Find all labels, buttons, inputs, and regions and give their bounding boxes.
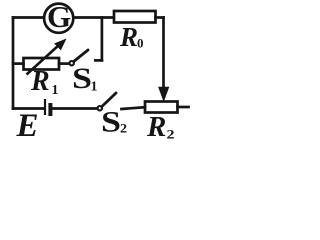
R2 wiper arrow (159, 87, 169, 100)
svg-text:2: 2 (167, 127, 175, 142)
wire top-left to galvanometer (13, 16, 44, 19)
wire R0 to right corner (156, 16, 164, 19)
wire S2 to R2 (122, 107, 146, 109)
svg-text:E: E (16, 108, 39, 143)
wire junction vertical to S1 (101, 18, 104, 61)
svg-text:G: G (47, 0, 71, 34)
R1 arrow (27, 40, 66, 75)
resistor R0 (114, 11, 156, 23)
variable resistor R1 (24, 58, 60, 70)
wire R1 to S1 (59, 62, 69, 65)
wire R1 left (13, 62, 24, 65)
svg-text:S: S (72, 62, 92, 95)
galvanometer G (44, 4, 73, 33)
rheostat R2 (145, 102, 178, 113)
wire left border (12, 18, 15, 109)
svg-text:R: R (30, 66, 50, 97)
svg-text:1: 1 (52, 83, 59, 98)
svg-text:R: R (146, 111, 166, 143)
wire S1 right contact stub (95, 59, 102, 62)
wire battery to S2 (53, 107, 97, 110)
wire galvanometer to R0 (74, 16, 114, 19)
wire R2 right stub (178, 106, 189, 109)
svg-text:0: 0 (137, 36, 144, 51)
battery E plates (45, 99, 50, 116)
wire right vertical to R2 wiper (162, 18, 165, 89)
svg-text:R: R (119, 22, 138, 52)
switch S1 (70, 50, 89, 65)
switch S2 (98, 93, 116, 110)
svg-text:S: S (101, 106, 121, 139)
wire bottom-left battery row (13, 107, 44, 110)
svg-text:2: 2 (120, 121, 127, 136)
svg-text:1: 1 (91, 80, 98, 95)
